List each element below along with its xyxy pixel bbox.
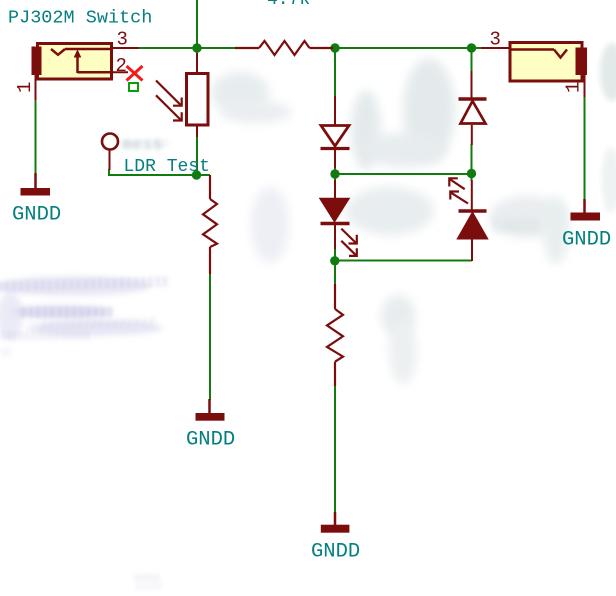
svg-text:1: 1: [563, 82, 585, 93]
svg-text:II: II: [0, 348, 11, 358]
svg-text:GNDD: GNDD: [12, 204, 61, 227]
svg-text:3: 3: [117, 28, 128, 50]
svg-text:GNDD: GNDD: [562, 229, 611, 252]
svg-text:GNDD: GNDD: [186, 429, 235, 452]
svg-text:3: 3: [490, 28, 501, 50]
svg-text:GNDD: GNDD: [311, 541, 360, 564]
svg-text:2: 2: [116, 55, 127, 77]
svg-text:GNDD: GNDD: [492, 216, 540, 239]
svg-text:IIIIIIIIIIIIIII: IIIIIIIIIIIIIII: [0, 332, 90, 343]
svg-text:PJ302M Switch: PJ302M Switch: [8, 8, 152, 29]
svg-text:LDR Test: LDR Test: [124, 157, 210, 177]
svg-text:4.7k: 4.7k: [267, 0, 310, 10]
svg-text:1: 1: [14, 82, 36, 93]
svg-text://///: /////: [135, 583, 162, 591]
svg-text:ss: ss: [152, 136, 169, 152]
